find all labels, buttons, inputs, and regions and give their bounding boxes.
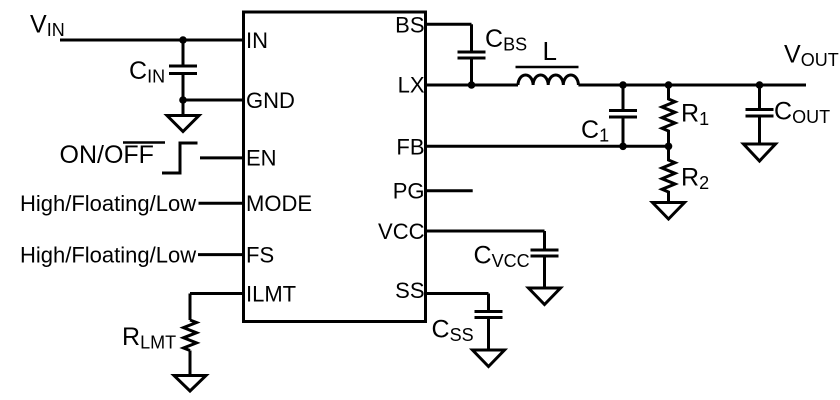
ground bbox=[174, 376, 206, 392]
wire VCC pin bbox=[426, 231, 545, 249]
wire ILMT pin bbox=[190, 294, 244, 321]
rising-edge symbol bbox=[162, 143, 198, 173]
svg-text:PG: PG bbox=[393, 179, 425, 204]
wire L to VOUT bbox=[578, 84, 806, 87]
wire MODE pin bbox=[199, 202, 244, 205]
svg-text:CSS: CSS bbox=[432, 316, 474, 346]
resistor R1 bbox=[662, 85, 675, 146]
node C1 bottom junction bbox=[619, 143, 627, 151]
svg-text:CBS: CBS bbox=[485, 25, 527, 55]
wire EN pin bbox=[200, 156, 244, 159]
svg-text:VCC: VCC bbox=[378, 219, 425, 244]
svg-text:VOUT: VOUT bbox=[784, 41, 839, 71]
wire BS pin bbox=[426, 24, 472, 50]
svg-text:ILMT: ILMT bbox=[246, 282, 296, 307]
svg-text:High/Floating/Low: High/Floating/Low bbox=[20, 191, 196, 216]
node VIN-CIN junction bbox=[179, 36, 187, 44]
svg-text:FS: FS bbox=[246, 243, 274, 268]
node LX-CBS junction bbox=[468, 81, 476, 89]
svg-text:VIN: VIN bbox=[30, 11, 65, 41]
svg-text:C1: C1 bbox=[581, 116, 609, 146]
capacitor CSS bbox=[475, 312, 503, 351]
capacitor C1 bbox=[609, 85, 637, 146]
svg-text:BS: BS bbox=[395, 12, 424, 37]
svg-text:EN: EN bbox=[246, 146, 277, 171]
ground bbox=[529, 288, 561, 305]
IC U1 bbox=[244, 12, 426, 322]
capacitor CIN bbox=[169, 40, 197, 100]
svg-text:COUT: COUT bbox=[774, 98, 830, 128]
svg-text:ON/OFF: ON/OFF bbox=[60, 141, 154, 169]
node R1-R2 junction bbox=[665, 143, 673, 151]
svg-text:High/Floating/Low: High/Floating/Low bbox=[20, 242, 196, 267]
svg-text:R1: R1 bbox=[681, 100, 709, 130]
inductor L bbox=[518, 75, 578, 85]
svg-text:FB: FB bbox=[396, 134, 424, 159]
capacitor CBS bbox=[458, 52, 486, 85]
svg-text:CIN: CIN bbox=[129, 57, 165, 87]
inductor L bar bbox=[516, 66, 579, 69]
resistor R2 bbox=[662, 146, 675, 202]
svg-text:L: L bbox=[543, 36, 557, 66]
wire PG pin bbox=[426, 189, 473, 192]
svg-text:R2: R2 bbox=[681, 164, 709, 194]
ON/OFF overline bbox=[123, 141, 165, 144]
node R1 top junction bbox=[665, 81, 673, 89]
capacitor COUT bbox=[746, 85, 774, 144]
wire to ground bbox=[182, 100, 185, 116]
wire SS pin bbox=[426, 294, 489, 311]
wire FS pin bbox=[198, 253, 244, 256]
wire RLMT to ground bbox=[189, 351, 192, 376]
wire VIN to IN bbox=[60, 39, 244, 42]
resistor RLMT bbox=[184, 320, 197, 351]
capacitor CVCC bbox=[531, 250, 559, 288]
ground bbox=[167, 116, 199, 132]
node COUT top junction bbox=[756, 81, 764, 89]
svg-text:LX: LX bbox=[398, 73, 425, 98]
svg-text:MODE: MODE bbox=[246, 191, 312, 216]
wire LX pin bbox=[426, 84, 519, 87]
svg-text:RLMT: RLMT bbox=[122, 323, 176, 353]
svg-text:GND: GND bbox=[246, 88, 295, 113]
ground bbox=[653, 203, 685, 220]
node CIN-GND junction bbox=[179, 96, 187, 104]
wire GND pin bbox=[183, 99, 244, 102]
wire FB pin bbox=[426, 145, 669, 148]
svg-text:CVCC: CVCC bbox=[474, 242, 530, 272]
node C1 top junction bbox=[619, 81, 627, 89]
svg-text:IN: IN bbox=[246, 28, 268, 53]
ground bbox=[744, 144, 776, 161]
ground bbox=[473, 350, 505, 367]
svg-text:SS: SS bbox=[395, 278, 424, 303]
